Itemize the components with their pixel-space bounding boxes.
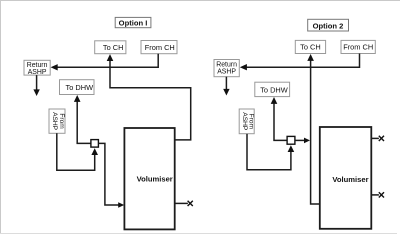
volumiser tank (right): [320, 127, 372, 229]
wire: From CH down and left to Return ASHP (left): [57, 54, 158, 68]
svg-text:ASHP: ASHP: [51, 112, 58, 131]
label box "Return ASHP" (left): [24, 60, 50, 76]
volumiser tank (left): [124, 128, 174, 229]
arrowhead into junction bottom (right): [288, 145, 295, 152]
svg-text:Volumiser: Volumiser: [137, 174, 173, 183]
svg-text:To CH: To CH: [300, 43, 321, 52]
label box "To DHW" (left): [60, 80, 95, 95]
arrowhead into volumiser left edge (left): [118, 202, 124, 208]
arrowhead into To DHW bottom (right): [271, 97, 278, 104]
label box "From ASHP" (left, rotated 90): [49, 109, 65, 133]
svg-text:Volumiser: Volumiser: [332, 175, 368, 184]
capped port stub with cross (left): [175, 201, 193, 206]
svg-text:To DHW: To DHW: [66, 83, 94, 92]
svg-text:ASHP: ASHP: [241, 112, 248, 131]
arrowhead into junction bottom (left): [91, 148, 98, 155]
svg-text:Option 2: Option 2: [313, 21, 344, 30]
label box "To DHW" (right): [255, 82, 290, 96]
arrowhead down below Return ASHP (left): [33, 89, 39, 96]
label box "To CH" (left): [95, 41, 126, 54]
capped port stub with cross (right, bottom): [371, 192, 384, 197]
junction valve square (right): [287, 136, 295, 144]
label box "Option 2": [308, 19, 349, 31]
wire: Return ASHP outlet down (right): [225, 77, 227, 90]
wire: Return ASHP outlet down (left): [36, 75, 38, 90]
svg-text:Return: Return: [216, 61, 237, 68]
wire: junction square to To DHW (left): [77, 101, 91, 143]
wire: volumiser right port up and to To CH (left): [110, 60, 191, 140]
arrowhead into To DHW bottom (left): [74, 95, 81, 102]
svg-text:ASHP: ASHP: [28, 69, 47, 76]
wire: junction right, down, to volumiser inlet (left): [98, 143, 119, 205]
junction valve square (left): [91, 140, 99, 148]
wire: From CH down and left to Return ASHP (right): [246, 54, 359, 68]
wire: From ASHP down, right, up to junction (right): [247, 134, 291, 170]
svg-text:From CH: From CH: [343, 43, 373, 52]
label box "From CH" (right): [341, 40, 375, 53]
arrowhead into Return ASHP right edge (left): [51, 64, 58, 70]
label box "To CH" (right): [295, 40, 325, 53]
wire: From ASHP down, right, up to junction (left): [57, 133, 95, 170]
svg-text:Option I: Option I: [119, 18, 148, 27]
svg-text:From CH: From CH: [145, 43, 175, 52]
svg-text:To DHW: To DHW: [260, 85, 288, 94]
label box "Option I": [115, 17, 151, 27]
capped port stub with cross (right, top): [371, 136, 384, 141]
label box "From ASHP" (right, rotated 90): [239, 109, 254, 134]
arrowhead into main riser (right): [304, 138, 310, 144]
arrowhead into Return ASHP right edge (right): [240, 64, 247, 70]
arrowhead into To CH bottom (right): [307, 54, 314, 61]
svg-text:To CH: To CH: [103, 43, 124, 52]
arrowhead down below Return ASHP (right): [223, 89, 229, 96]
label box "Return ASHP" (right): [214, 60, 239, 77]
arrowhead into To CH bottom (left): [107, 54, 114, 61]
wire: junction square to To DHW (right): [274, 103, 287, 140]
wire: main riser from volumiser up to To CH (right): [311, 60, 320, 204]
wire: junction right to main riser (right): [295, 139, 305, 141]
svg-text:ASHP: ASHP: [217, 68, 236, 75]
label box "From CH" (left): [141, 41, 177, 54]
